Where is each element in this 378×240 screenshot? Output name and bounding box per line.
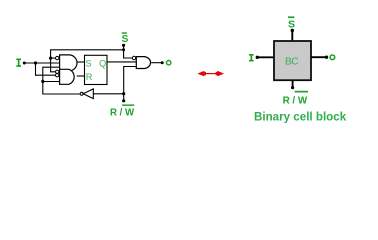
and-gate A2 input bubble (I inverted) <box>56 74 59 77</box>
equivalence arrow (red double-headed) <box>197 71 224 77</box>
wire select branch to gate A1 <box>51 57 56 59</box>
latch U1 (SR latch box) <box>85 55 108 84</box>
wire gate A2 output to latch R <box>77 75 85 77</box>
svg-text:S: S <box>122 34 129 45</box>
wire gate A1 output to latch S <box>77 61 85 63</box>
wire I right to block <box>257 56 274 58</box>
svg-text:S: S <box>288 18 295 30</box>
and-gate A2 <box>60 69 75 84</box>
inverter N1 bubble <box>80 92 83 95</box>
wire inverter input from R/W rail <box>93 93 123 95</box>
and-gate A1 input bubble (select) <box>56 56 59 59</box>
and-gate A3 input bubble (select) <box>132 56 135 59</box>
node select junction dot <box>49 57 52 60</box>
and-gate A2 input bubble (select) <box>56 70 59 73</box>
and-gate A3 (output gate) <box>136 57 150 69</box>
wire I branch down to gate A2 <box>36 63 56 75</box>
label R/W-bar right <box>283 91 308 107</box>
and-gate A1 <box>60 55 77 71</box>
node S-bar right terminal dot <box>291 29 294 32</box>
wire latch Q to gate A3 <box>107 61 136 63</box>
node I terminal dot <box>23 62 26 65</box>
wire I input horizontal <box>24 62 60 64</box>
node W junction dot <box>41 80 44 83</box>
node I right label <box>249 54 254 61</box>
svg-text:R / W: R / W <box>110 108 135 119</box>
wire select rail from S-bar to gates <box>51 50 124 72</box>
node R/W right terminal dot <box>291 86 294 89</box>
node R/W terminal dot <box>122 99 125 102</box>
svg-text:R: R <box>86 72 93 82</box>
label S-bar right <box>288 16 295 30</box>
svg-text:BC: BC <box>285 57 298 68</box>
node R/W junction dot <box>122 92 125 95</box>
node O terminal dot <box>161 61 164 64</box>
wire R/W vertical to gate A3 <box>124 67 137 101</box>
svg-text:Binary cell block: Binary cell block <box>254 111 347 124</box>
inverter N1 (R/W inverter, points left) <box>83 89 93 99</box>
wire block to O right <box>311 56 325 58</box>
node I right dot <box>256 56 259 59</box>
wire S-bar drop to gate A3 <box>124 46 133 58</box>
label O right <box>330 55 335 60</box>
node S-bar terminal dot <box>122 44 125 47</box>
label O left output <box>167 61 171 65</box>
wire block bottom to R/W right <box>292 80 294 87</box>
svg-text:Q: Q <box>99 58 106 68</box>
wire gate A3 output to O <box>151 62 161 64</box>
node I junction dot <box>34 61 37 64</box>
node S-bar rail junction dot <box>122 48 125 51</box>
label R/W-bar left <box>110 104 135 118</box>
wire W branch to gate A2 <box>43 81 60 83</box>
svg-text:S: S <box>86 58 92 68</box>
block BC (binary cell) <box>274 41 311 80</box>
wire W rail from inverter <box>43 67 81 94</box>
label S-bar left <box>122 32 129 45</box>
node I (left input label) <box>16 59 21 67</box>
node O right dot <box>325 56 328 59</box>
svg-text:R / W: R / W <box>283 94 308 106</box>
wire S-bar to block top <box>291 31 293 42</box>
